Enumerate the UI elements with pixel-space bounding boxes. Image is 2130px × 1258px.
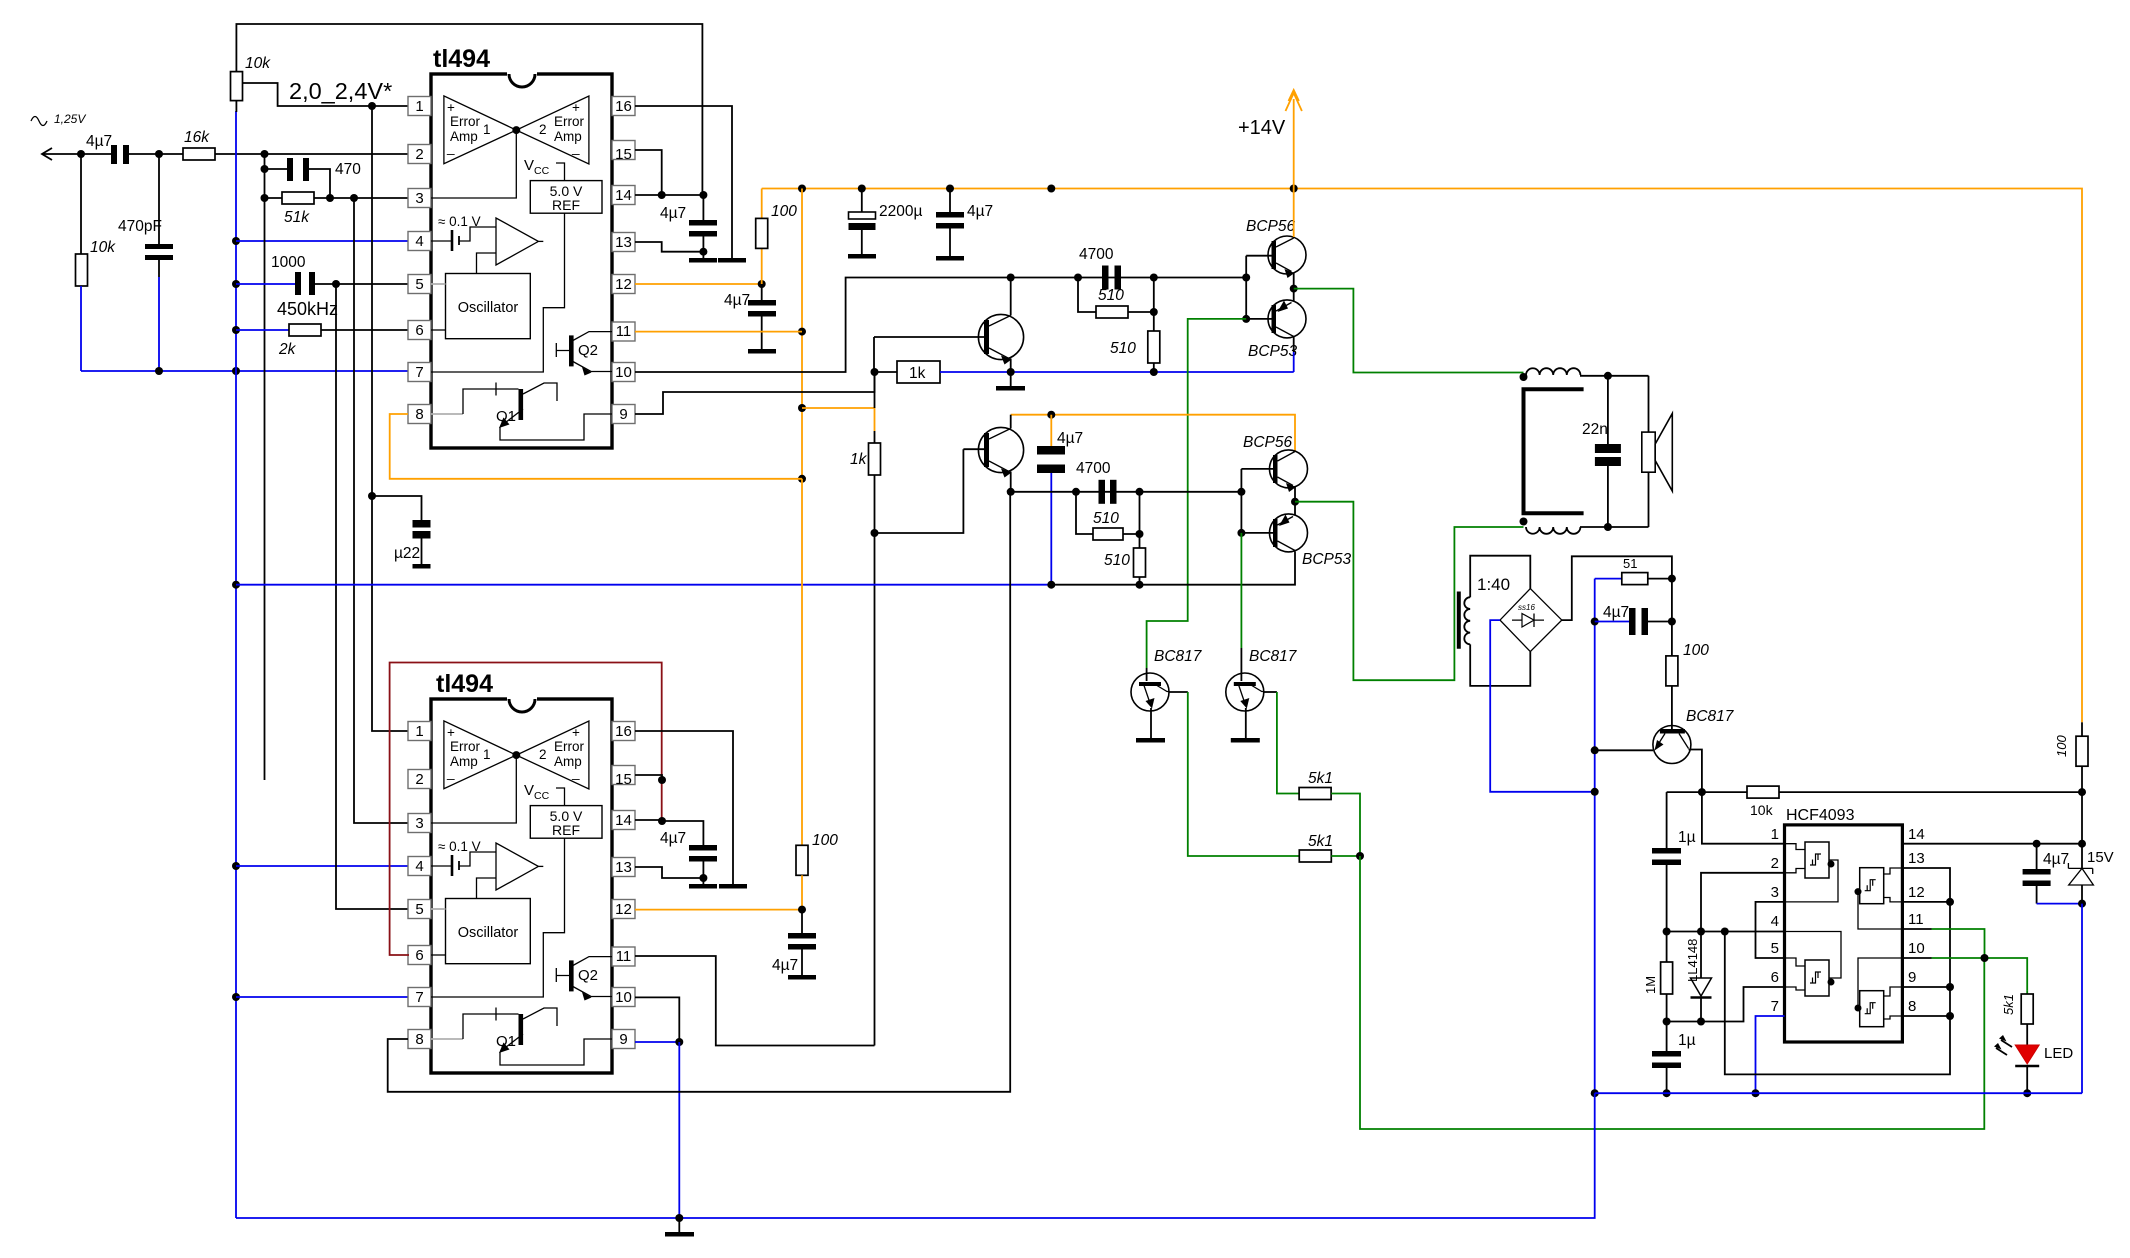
wire blue rail mid right [1595, 1092, 2082, 1094]
wire bridge plus black [1562, 556, 1672, 620]
inductor L1 top [1520, 368, 1649, 381]
ground C19 [788, 975, 816, 980]
svg-text:100: 100 [812, 832, 838, 849]
capacitor C7 4µ7 under R6 [724, 284, 776, 349]
wire pin4 blue [236, 240, 408, 242]
capacitor C14 4µ7 bridge [1595, 604, 1676, 635]
svg-text:5: 5 [1771, 940, 1779, 957]
svg-text:BCP56: BCP56 [1243, 434, 1292, 451]
wire green stage2 output [1291, 498, 1524, 681]
gate U3A [1785, 842, 1839, 902]
resistor R4 51k [265, 192, 409, 226]
svg-text:510: 510 [1098, 287, 1124, 304]
capacitor C2 470pF [118, 154, 173, 371]
svg-text:22n: 22n [1582, 421, 1608, 438]
ground U2 pin16 [719, 884, 747, 889]
ground C6 [689, 258, 717, 263]
capacitor C1 4µ7 input [86, 133, 129, 164]
wire U3 pin7 blue [1752, 1016, 1785, 1097]
ground C8 [848, 254, 876, 259]
transistor Q7 BCP56 stage2 [1241, 434, 1307, 502]
svg-text:5k1: 5k1 [1308, 770, 1333, 787]
capacitor C13 22n [1582, 376, 1621, 527]
svg-text:BCP56: BCP56 [1246, 218, 1295, 235]
IC U3 HCF4093 [1771, 807, 1925, 1042]
svg-text:BCP53: BCP53 [1302, 551, 1351, 568]
svg-text:4700: 4700 [1076, 460, 1111, 477]
svg-text:4µ7: 4µ7 [660, 205, 686, 222]
wire U1 pin9 jog [635, 368, 879, 414]
wire U1 pin14 node [635, 191, 707, 220]
resistor R1 10k left [76, 154, 117, 371]
svg-text:10k: 10k [245, 55, 271, 72]
wire green return bottom [1360, 856, 1984, 1129]
svg-text:4µ7: 4µ7 [724, 292, 750, 309]
transistor Q4 BCP56 stage1 [1246, 189, 1306, 289]
wire blue rail pin7 [81, 367, 408, 375]
svg-text:510: 510 [1110, 340, 1136, 357]
wire U1 pin13 [635, 242, 703, 252]
svg-text:4µ7: 4µ7 [967, 203, 993, 220]
wire U1 pin16 to ground [635, 106, 732, 258]
svg-text:9: 9 [1908, 969, 1916, 986]
gate U3C [1785, 932, 1842, 997]
svg-text:6: 6 [1771, 969, 1779, 986]
wire column x372 to U2 pin1 [368, 106, 408, 731]
svg-text:100: 100 [1683, 642, 1709, 659]
svg-text:8: 8 [1908, 998, 1916, 1015]
svg-text:10k: 10k [1750, 802, 1774, 818]
wire Q4 base tie [1242, 256, 1250, 323]
diode D2 LL4148 [1685, 932, 1712, 1022]
wire U3 pin8 [1902, 1015, 1950, 1017]
svg-text:51k: 51k [284, 209, 310, 226]
wire U2 pin12 orange [635, 906, 806, 914]
capacitor C16 1µ lower [1652, 1032, 1696, 1097]
wire driver1 base column [873, 337, 875, 372]
capacitor C6 4µ7 U1 ref [660, 205, 717, 258]
resistor R7 1k boxed [875, 361, 941, 383]
transistor Q6 driver2 [963, 415, 1023, 492]
IC U2 tl494 [408, 670, 635, 1073]
AC source V1 1,25V [31, 112, 86, 126]
resistor R10 1k stage2 [850, 372, 881, 1046]
wire U3 pin9 [1902, 986, 1950, 988]
wire U2 pin8 loop [388, 492, 1011, 1092]
transistor Q5 BCP53 stage1 [1246, 289, 1306, 372]
capacitor C3 470 [265, 158, 362, 198]
wire U3 pin10 green [1902, 954, 2027, 991]
wire green stage1 to BC817 base [1147, 319, 1247, 674]
wire U2 pin13 [635, 867, 703, 878]
wire blue column x236 [232, 111, 240, 1218]
svg-text:ss16: ss16 [1518, 603, 1535, 612]
inductor L2 bottom [1520, 518, 1649, 534]
wire U2 pin16 to ground [635, 731, 733, 884]
transistor Q8 BCP53 stage2 [1241, 502, 1351, 568]
svg-text:510: 510 [1104, 552, 1130, 569]
svg-text:4700: 4700 [1079, 246, 1114, 263]
svg-text:5k1: 5k1 [2001, 994, 2016, 1015]
svg-text:16k: 16k [184, 129, 210, 146]
svg-text:BC817: BC817 [1154, 648, 1203, 665]
resistor R12 510 stage2 v [1104, 492, 1146, 585]
wire orange column to U2 pin12 [801, 479, 803, 846]
svg-text:450kHz: 450kHz [277, 299, 338, 319]
wire U3 pin1 [1702, 792, 1785, 844]
wire U1 pin8 orange loop [390, 414, 802, 479]
svg-text:470: 470 [335, 161, 361, 178]
wire U3 pins13-12 tie [1902, 868, 1950, 902]
svg-text:7: 7 [1771, 998, 1779, 1015]
wire BC817 base from blue [1595, 749, 1653, 751]
wire column x354 to U2 pin3 [354, 198, 408, 823]
wire input node [42, 150, 183, 158]
svg-text:10k: 10k [90, 239, 116, 256]
svg-text:+14V: +14V [1238, 117, 1286, 139]
svg-text:14: 14 [1908, 826, 1925, 843]
svg-text:4µ7: 4µ7 [660, 830, 686, 847]
svg-text:1k: 1k [850, 451, 868, 468]
resistor R17 10k [1667, 786, 2086, 818]
svg-text:1,25V: 1,25V [54, 112, 86, 126]
diode D3 zener 15V [2068, 844, 2113, 1093]
+14V arrow and label [1238, 90, 1302, 189]
wire U1 pin10 to driver collector [635, 274, 1246, 373]
svg-text:HCF4093: HCF4093 [1786, 807, 1855, 824]
capacitor C11 4µ7 mid [1037, 415, 1083, 585]
svg-text:5k1: 5k1 [1308, 833, 1333, 850]
capacitor C4 1000 [236, 254, 408, 295]
IC U1 tl494 [408, 45, 635, 448]
svg-text:1µ: 1µ [1678, 1032, 1696, 1049]
wire U2 pin7 blue [236, 996, 408, 998]
node label 450kHz [277, 299, 338, 319]
gate U3B [1855, 868, 1903, 929]
wire U2 pin11 path [635, 956, 875, 1046]
svg-text:1000: 1000 [271, 254, 306, 271]
svg-text:3: 3 [1771, 884, 1779, 901]
resistor R2 16k [183, 129, 408, 160]
resistor R21 100 U2 [796, 832, 838, 910]
ground C9 [936, 256, 964, 261]
capacitor C10 4700 stage1 [1079, 246, 1121, 290]
ground C18 [689, 884, 717, 889]
resistor R8 510 stage1 h [1078, 278, 1158, 319]
svg-text:1k: 1k [909, 365, 926, 382]
svg-text:510: 510 [1093, 510, 1119, 527]
gate U3D [1855, 958, 1903, 1027]
svg-text:2200µ: 2200µ [879, 203, 922, 220]
wire +14V rail orange [762, 185, 2082, 723]
svg-text:tl494: tl494 [436, 670, 493, 698]
svg-text:51: 51 [1623, 556, 1637, 571]
resistor R20 5k1 LED [2001, 991, 2033, 1045]
resistor R9 510 stage1 v [1110, 278, 1160, 373]
wire U3 pin14 [1902, 840, 2086, 848]
wire green stage1 output [1290, 285, 1524, 373]
svg-text:BC817: BC817 [1686, 708, 1735, 725]
wire U1 pin11 orange [635, 331, 802, 333]
wire U3 pin6 link [1663, 987, 1785, 1026]
wire maroon net U2 [390, 663, 666, 956]
svg-text:12: 12 [1908, 884, 1925, 901]
wire blue rail stage1 [940, 368, 1294, 376]
svg-text:4µ7: 4µ7 [1057, 430, 1083, 447]
svg-text:1µ: 1µ [1678, 829, 1696, 846]
resistor R14 5k1 lower [1188, 692, 1364, 862]
svg-text:BCP53: BCP53 [1248, 343, 1297, 360]
speaker LS1 [1642, 376, 1673, 527]
svg-text:13: 13 [1908, 850, 1925, 867]
capacitor C19 4µ7 U2 [772, 910, 816, 975]
LED D4 [1994, 1035, 2073, 1097]
capacitor C17 4µ7 right [2023, 844, 2082, 904]
wire U3 pin4 row [1667, 928, 1785, 936]
wire U3 pin11 green [1902, 929, 1984, 958]
svg-text:LED: LED [2044, 1045, 2073, 1062]
resistor R5 2k [236, 324, 408, 358]
svg-text:2k: 2k [278, 341, 297, 358]
wire U2 pin9 blue [635, 1038, 683, 1218]
svg-text:µ22: µ22 [394, 545, 420, 562]
wire U3 pin3 to pin5 [1756, 902, 1785, 958]
wire rail stage2 [236, 552, 1295, 589]
svg-text:4µ7: 4µ7 [1603, 604, 1629, 621]
wire green stage2 to BC817 base [1240, 533, 1242, 674]
wire U1 pin15 [635, 150, 662, 195]
wire orange driver2 collector [1011, 411, 1295, 451]
wire orange jog to R10 [802, 408, 875, 431]
ground C7 [748, 349, 776, 354]
capacitor C8 2200µ polarized [849, 189, 923, 255]
wire driver2 emitter line [1007, 488, 1242, 496]
wire U2 pin4 blue [236, 865, 408, 867]
transistor Q3 driver1 [874, 278, 1024, 373]
core coupling bracket [1524, 389, 1584, 513]
wire U2 pin14 to cap [635, 820, 703, 845]
wire orange column x802 [798, 189, 806, 483]
capacitor C12 4700 stage2 [1076, 460, 1117, 504]
capacitor C18 4µ7 U2 ref [660, 830, 717, 884]
svg-text:2,0_2,4V*: 2,0_2,4V* [289, 78, 392, 104]
wire bridge minus blue [1490, 620, 1595, 792]
svg-text:11: 11 [1908, 911, 1924, 928]
svg-text:LL4148: LL4148 [1685, 939, 1700, 982]
resistor R19 100 right [2054, 722, 2088, 843]
resistor R18 1M [1643, 962, 1673, 1051]
wire driver2 base path [871, 449, 964, 537]
svg-text:4µ7: 4µ7 [2043, 851, 2069, 868]
wire column x264 (470/51k left) [261, 150, 269, 780]
svg-text:BC817: BC817 [1249, 648, 1298, 665]
capacitor C5 µ22 [372, 496, 431, 564]
bridge rectifier D1 ss16 [1500, 589, 1562, 652]
resistor R6 100 [756, 189, 798, 285]
svg-text:100: 100 [771, 203, 797, 220]
transistor Q10 BC817 right [1226, 648, 1298, 738]
ground driver1 [996, 372, 1025, 391]
ground Q9 [1136, 738, 1165, 743]
node label 2,0_2,4V* [289, 78, 392, 104]
transistor Q9 BC817 left [1131, 648, 1203, 738]
resistor R3 10k top [231, 24, 703, 195]
resistor R13 5k1 upper [1277, 692, 1360, 856]
capacitor C15 1µ upper [1652, 792, 1696, 962]
svg-text:4: 4 [1771, 913, 1779, 930]
wire U3 pin2 [1701, 873, 1785, 932]
wire blue column x1594 [1591, 579, 1599, 1098]
svg-text:1: 1 [1771, 826, 1779, 843]
wire U3 pins12-9-8 column [1725, 898, 1954, 1075]
wire column x336 to U2 pin5 [336, 284, 408, 909]
wire U2 pin15 [635, 775, 662, 780]
resistor R11 510 stage2 h [1076, 492, 1144, 540]
wire Q7 base tie [1237, 469, 1245, 537]
transistor Q11 BC817 [1653, 708, 1735, 792]
svg-text:10: 10 [1908, 940, 1925, 957]
capacitor C9 4µ7 rail [936, 189, 993, 257]
svg-text:4µ7: 4µ7 [86, 133, 112, 150]
svg-text:tl494: tl494 [433, 45, 490, 73]
transformer T1 1:40 [1459, 556, 1531, 686]
svg-text:2: 2 [1771, 855, 1779, 872]
wire U1 pin12 orange [635, 280, 766, 288]
input arrow terminal [42, 148, 52, 160]
svg-text:100: 100 [2054, 735, 2069, 757]
ground µ22 [413, 564, 431, 569]
wire U2 pin10 [635, 997, 679, 1042]
ground U1 pin16 [718, 258, 746, 263]
svg-text:1M: 1M [1643, 976, 1658, 994]
ground bottom rail [665, 1218, 694, 1237]
resistor R16 100 bridge [1666, 579, 1709, 726]
svg-text:15V: 15V [2087, 849, 2114, 866]
svg-text:1:40: 1:40 [1477, 575, 1510, 594]
resistor R15 51 [1595, 556, 1676, 585]
svg-text:4µ7: 4µ7 [772, 957, 798, 974]
wire blue bottom rail [236, 1093, 1595, 1222]
ground Q10 [1231, 738, 1260, 743]
svg-text:470pF: 470pF [118, 218, 162, 235]
